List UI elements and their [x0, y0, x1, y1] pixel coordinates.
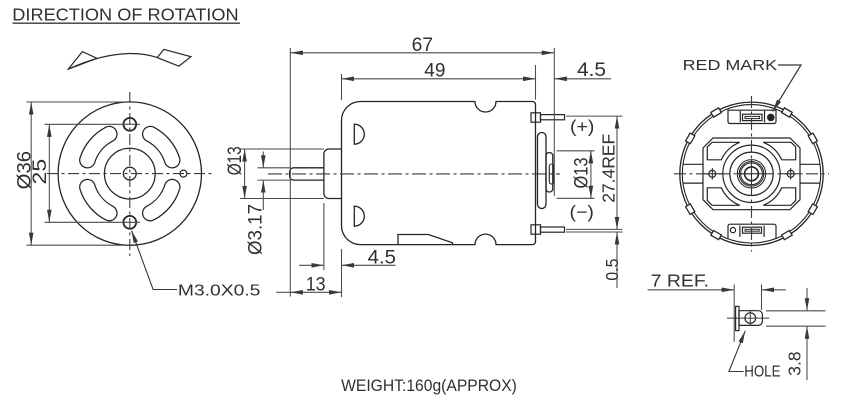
rim tab 210 [686, 204, 695, 215]
rim tab 120 [711, 108, 722, 117]
dim 49 extension right [535, 65, 537, 100]
rear inner rim circle [682, 105, 820, 243]
terminal slot bottom [743, 227, 762, 233]
bearing boss [324, 149, 342, 199]
dim 27.4REF extensions [566, 115, 623, 117]
rivet hole bottom [730, 228, 735, 233]
dim O3.17 extensions [258, 167, 291, 169]
terminal hole [745, 313, 756, 324]
front outer circle [58, 102, 201, 245]
rim tab 330 [808, 204, 817, 215]
window lower-left [707, 188, 740, 206]
bolt hole ticks [712, 168, 790, 180]
screw hole D-shape top [354, 124, 364, 144]
red mark leader [773, 65, 802, 112]
dim 3.8 extensions [766, 310, 826, 312]
vent slot lower-left [80, 179, 117, 220]
terminal bottom base [531, 225, 541, 234]
front hub circle [104, 148, 155, 199]
dim 4.5 bottom extension [323, 203, 325, 270]
svg-text:49: 49 [424, 61, 445, 82]
dim 49 line [342, 78, 536, 80]
front horizontal centerline [47, 173, 213, 175]
7REF extension right [761, 285, 763, 311]
dim 25 extension lines [45, 123, 140, 125]
7REF extension left [733, 285, 735, 342]
SIDE VIEW (middle) [290, 102, 565, 245]
red mark dot [767, 114, 775, 122]
dim O3.17 arrow bottom [262, 180, 264, 210]
mounting hole bottom [123, 216, 136, 229]
terminal top base [531, 113, 541, 122]
dim 13 extension right [341, 249, 343, 297]
terminal bottom blade [541, 227, 565, 232]
dim 27.4REF line [616, 116, 618, 229]
front vertical centerline [129, 92, 131, 256]
svg-text:67: 67 [412, 35, 433, 56]
endcap rim capsule [538, 133, 547, 209]
svg-text:Ø3.17: Ø3.17 [246, 204, 267, 255]
rim tab 300 [782, 231, 793, 240]
window upper-left [707, 142, 740, 160]
svg-text:Ø13: Ø13 [572, 158, 593, 189]
dim 4.5 bottom arrows [299, 264, 324, 266]
svg-text:WEIGHT:160g(APPROX): WEIGHT:160g(APPROX) [341, 377, 517, 395]
window lower-right [763, 188, 796, 206]
vent slot upper-right [143, 126, 180, 167]
side view centerline [268, 173, 560, 175]
bolt hole right [787, 170, 794, 177]
vent slot upper-left [80, 126, 117, 167]
rim tab 150 [686, 133, 695, 144]
dim 36 extension lines [27, 101, 131, 103]
svg-text:27.4REF: 27.4REF [599, 134, 619, 203]
terminal housing top inner [740, 111, 764, 123]
dim 13 line [276, 291, 290, 293]
terminal slot top [743, 114, 763, 120]
dim O13 left extensions [240, 148, 324, 150]
terminal housing top [728, 110, 776, 123]
rim tab 240 [711, 231, 722, 240]
terminal top blade [541, 115, 565, 120]
dim 49 extension left [341, 74, 343, 100]
leader HOLE [729, 331, 745, 372]
mounting hole top [123, 118, 136, 131]
dim O13 right extensions [557, 150, 595, 152]
rear vertical centerline [751, 96, 753, 252]
svg-text:DIRECTION OF ROTATION: DIRECTION OF ROTATION [12, 4, 238, 24]
dim O13 left line [244, 149, 246, 199]
dim 67 extension left [289, 48, 291, 297]
svg-text:0.5: 0.5 [602, 259, 622, 281]
window upper-right [763, 142, 796, 160]
terminal blade with hole [739, 311, 762, 326]
endcap shaft pocket [549, 164, 554, 184]
bottom tab top outline [398, 235, 453, 245]
motor body outline [342, 102, 536, 245]
dim 3.8 arrows [806, 288, 808, 311]
svg-text:(−): (−) [570, 202, 594, 222]
dim 4.5 top line [554, 78, 611, 80]
REAR VIEW (right) [680, 102, 823, 245]
terminal flange [736, 306, 739, 330]
dim 67 line [290, 52, 554, 54]
rear horizontal centerline [674, 173, 829, 175]
svg-text:HOLE: HOLE [744, 364, 780, 381]
rotation direction curved arrow [68, 49, 191, 69]
front pilot hole [180, 170, 187, 177]
terminal housing bottom inner [740, 226, 764, 238]
brush card octagon [703, 138, 800, 210]
dim 0.5 extension [566, 231, 623, 233]
rim tab 60 [782, 108, 793, 117]
svg-text:25: 25 [30, 159, 51, 185]
svg-text:3.8: 3.8 [784, 352, 804, 376]
dim O13 right line [590, 151, 592, 199]
card ear right [800, 164, 820, 183]
front shaft circle [123, 167, 136, 180]
screw hole D-shape bottom [354, 206, 364, 226]
svg-text:M3.0X0.5: M3.0X0.5 [178, 282, 261, 299]
svg-text:Ø13: Ø13 [225, 146, 246, 175]
svg-text:(+): (+) [570, 116, 594, 136]
svg-text:13: 13 [306, 275, 326, 296]
dim 25 dimension line [48, 124, 50, 222]
svg-text:4.5: 4.5 [577, 60, 606, 81]
svg-text:7 REF.: 7 REF. [651, 270, 709, 290]
bearing circles [723, 145, 780, 202]
bolt hole left [709, 170, 716, 177]
dim 36 dimension line [30, 102, 32, 245]
terminal housing bottom [728, 224, 776, 238]
shaft [290, 168, 324, 180]
rear outer circle [680, 102, 823, 245]
card ear left [683, 164, 703, 183]
rim tab 30 [808, 133, 817, 144]
dim 0.5 arrow [616, 232, 618, 288]
dim O3.17 arrow top [262, 152, 264, 168]
terminal hole centerlines [727, 311, 769, 326]
leader M3.0X0.5 [132, 231, 178, 290]
dim 7REF line [648, 289, 735, 291]
vent slot lower-right [143, 179, 180, 220]
dim 67 extension right [553, 48, 555, 196]
svg-text:RED MARK: RED MARK [683, 57, 778, 74]
endcap bearing bump [546, 153, 553, 193]
svg-text:4.5: 4.5 [368, 247, 396, 268]
